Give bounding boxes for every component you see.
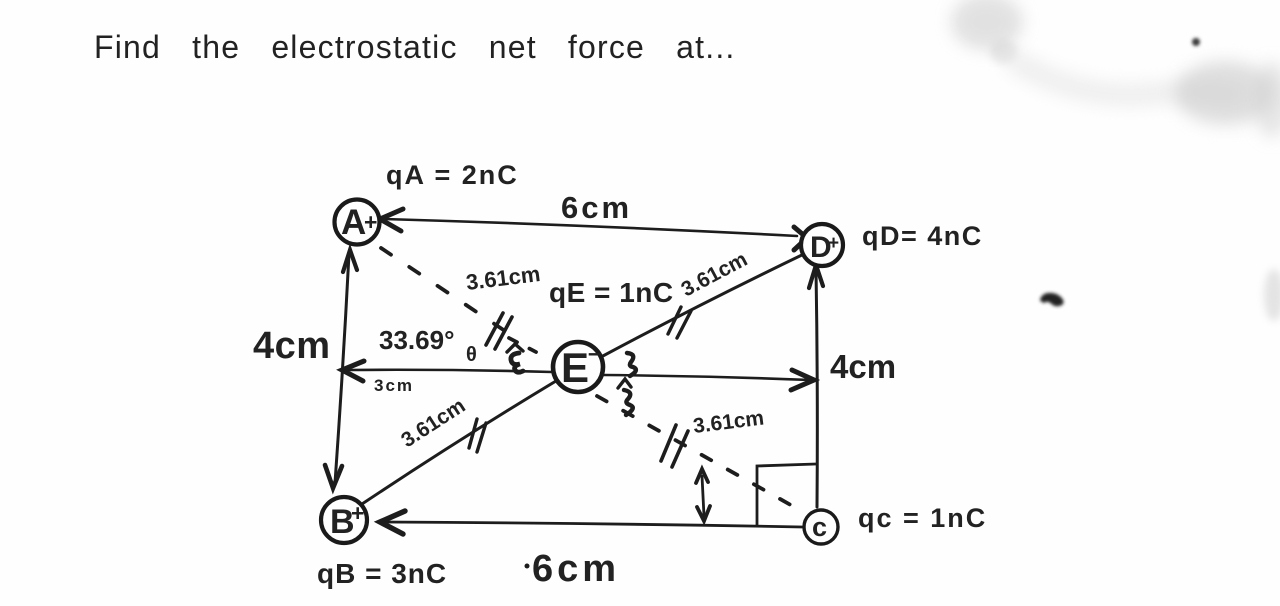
svg-text:qc = 1nC: qc = 1nC: [858, 503, 987, 533]
svg-text:4cm: 4cm: [830, 348, 896, 385]
svg-text:Find the electrostatic net for: Find the electrostatic net force at...: [94, 29, 736, 65]
svg-text:qB = 3nC: qB = 3nC: [317, 558, 447, 589]
svg-text:qA = 2nC: qA = 2nC: [386, 160, 519, 190]
svg-text:+: +: [351, 500, 364, 526]
svg-text:–: –: [588, 340, 601, 367]
svg-text:6cm: 6cm: [532, 548, 620, 590]
svg-text:+: +: [828, 233, 839, 254]
svg-text:A: A: [341, 203, 366, 242]
svg-text:33.69°: 33.69°: [379, 325, 454, 355]
svg-text:+: +: [364, 209, 377, 235]
svg-text:c: c: [812, 512, 827, 542]
svg-text:qE = 1nC: qE = 1nC: [549, 277, 674, 308]
svg-text:6cm: 6cm: [561, 190, 632, 225]
svg-text:E: E: [561, 344, 589, 391]
svg-text:θ: θ: [466, 344, 477, 366]
svg-text:3cm: 3cm: [374, 376, 414, 395]
svg-text:qD= 4nC: qD= 4nC: [862, 221, 983, 251]
svg-text:4cm: 4cm: [253, 325, 331, 367]
